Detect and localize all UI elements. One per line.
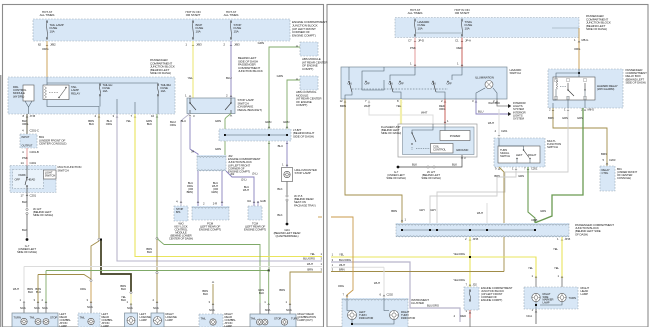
svg-text:(W/O ALARM): (W/O ALARM) [597,87,614,91]
svg-text:SIDE OF DASH): SIDE OF DASH) [626,80,646,84]
svg-text:CONSOLE): CONSOLE) [617,176,631,180]
svg-text:10A: 10A [103,89,108,93]
heavy BRN/BLK wire to license lamps [101,240,131,292]
key lock control module [180,201,182,203]
svg-text:ORG: ORG [22,122,29,126]
junction dot green bus x269 [268,270,270,272]
svg-text:NCA: NCA [153,306,159,310]
hazard relay [553,77,595,100]
svg-text:RA: RA [247,199,251,203]
svg-text:GRN): GRN) [211,190,218,194]
svg-text:BLK: BLK [452,163,457,167]
svg-text:OUTPUT: OUTPUT [22,144,33,148]
svg-text:BLU/ORG: BLU/ORG [303,257,315,261]
svg-text:PACKAGE TRAY): PACKAGE TRAY) [294,203,316,207]
svg-text:TAIL: TAIL [251,317,257,321]
wire ORG to hazard relay [578,28,580,69]
svg-text:BRN: BRN [307,268,313,272]
pins below top junction block [46,44,48,46]
svg-text:M8-G: M8-G [582,38,590,42]
svg-text:CONTROL: CONTROL [433,148,447,152]
svg-text:BLU: BLU [181,119,186,123]
svg-text:BLK: BLK [277,187,282,191]
svg-text:STOP LAMP: STOP LAMP [295,171,311,175]
ground G-7 under left side of dash [26,238,29,241]
svg-text:10A: 10A [161,89,166,93]
wire BRN from relay to relay-control box [553,108,607,166]
svg-text:ORG: ORG [439,107,446,111]
passenger compartment junction block (DRL/tail relay box) [8,77,175,114]
left license lamp [125,313,138,327]
wire BLU to TCM [226,171,254,206]
svg-text:GRN: GRN [277,74,283,78]
svg-text:SIDE OF DASH): SIDE OF DASH) [586,27,607,31]
wire to right rear combination lamp (w/stop) [212,284,214,305]
fuse TAIL LAMP FUSE 10A [46,20,48,22]
pins below relay box [552,109,554,111]
svg-text:STOP: STOP [50,316,57,320]
wire ORG from tail lamp fuse [46,41,48,77]
svg-text:LAMP: LAMP [166,318,173,322]
svg-text:QUARTERPANEL): QUARTERPANEL) [275,234,298,238]
svg-text:GRN: GRN [562,116,568,120]
svg-text:SIDE OF DASH): SIDE OF DASH) [150,71,171,75]
svg-text:SYSTEM: SYSTEM [513,117,525,121]
svg-text:(W/ DRL): (W/ DRL) [13,94,24,98]
svg-text:YEL: YEL [528,266,534,270]
svg-text:WHT: WHT [364,104,371,108]
svg-text:LAMP: LAMP [140,318,147,322]
svg-text:BLU: BLU [478,110,483,114]
svg-text:YEL: YEL [188,76,194,80]
long vertical BRN/BLK (x99) from junction block to rear lamps [98,114,100,238]
ground G04 behind left rear quarterpanel [286,223,289,226]
svg-text:GRN: GRN [215,119,221,123]
svg-text:ORG: ORG [42,47,49,51]
svg-text:ENGINE COMPT): ENGINE COMPT) [244,228,266,232]
svg-text:LAMP: LAMP [543,300,550,304]
svg-text:RED: RED [457,46,463,50]
svg-text:NCA: NCA [265,308,271,312]
wire WHT/BLK to interior lights system [497,99,508,106]
svg-text:WHT: WHT [421,111,428,115]
svg-text:M8-G: M8-G [588,108,595,112]
wire YEL from b/up fuse [192,41,194,98]
svg-text:BRN: BRN [548,116,554,120]
svg-text:2-R: 2-R [213,202,217,206]
right head lamp [524,287,578,309]
WHT bus [24,266,322,268]
svg-text:ILLUMINATION: ILLUMINATION [475,76,494,80]
svg-text:BLU/ORG: BLU/ORG [427,304,439,308]
wire PNK from B01 to multi-function switch [26,148,28,166]
svg-text:BLK: BLK [147,122,152,126]
svg-text:BLU: BLU [226,76,232,80]
svg-text:10: 10 [151,114,155,118]
fuse HAZARD FUSE 10A [414,19,416,21]
svg-text:C7: C7 [408,39,412,43]
svg-text:GRN: GRN [283,120,289,124]
GRN drop to left rear stop lamp [45,271,47,304]
svg-text:J/B3: J/B3 [196,43,202,47]
svg-text:BRN: BRN [391,209,397,213]
switch blades inside stop lamp switch [189,98,191,103]
svg-text:BRN: BRN [279,288,285,292]
svg-text:YEL: YEL [339,253,345,257]
wire BLK below high mounted stop lamp [286,182,288,195]
junction dots in LT-B/T [224,134,226,136]
svg-text:NCA: NCA [34,306,40,310]
svg-text:HEAD: HEAD [28,178,36,182]
WHT drop to left rear turn lamp [23,267,25,304]
svg-text:OF DASH): OF DASH) [575,232,588,236]
svg-text:GRY: GRY [430,208,436,212]
wire RED [461,38,463,68]
wire BLU/ORG from stop lamp switch to key lock module [189,115,191,117]
svg-text:J/B2: J/B2 [50,43,56,47]
wire BLU to interior lights system [476,99,508,114]
svg-text:WHT: WHT [307,262,313,266]
flasher unit [398,124,477,157]
hazard relay box (passenger compartment relay box) [548,69,623,108]
svg-text:YEL/ORG: YEL/ORG [453,252,465,256]
svg-text:YEL: YEL [126,119,132,123]
svg-text:10A: 10A [196,29,201,33]
small engine compartment junction block (bottom right) [464,287,479,310]
pins below [414,40,416,42]
bus WHT right panel [331,266,384,268]
svg-text:C201: C201 [30,161,37,165]
svg-text:TAIL: TAIL [80,316,86,320]
svg-text:NCA: NCA [20,306,26,310]
fuse B/UP FUSE 10A [192,20,194,22]
svg-text:SWITCH: SWITCH [547,145,558,149]
wire YEL to right head lamp (from bus corner) [331,257,536,278]
LT-B/T connector box (behind right side of dash) [219,129,291,141]
left panel frame [3,5,324,327]
wire YEL thick from hazard switch to flasher [400,99,402,124]
svg-text:BLK: BLK [28,290,33,294]
B01 box (under front of center console) [20,134,37,148]
fuse STOP FUSE 15A [230,20,232,22]
fuse TAIL/RH FUSE 10A [157,83,159,85]
wire GRN from stop lamp switch [230,115,232,117]
multi-function switch (light switch, left panel) [10,166,56,193]
pins below multi-function switch [498,168,500,170]
svg-text:TAIL: TAIL [30,316,36,320]
svg-text:BLU/ORG: BLU/ORG [339,258,351,262]
svg-text:GAB: GAB [260,199,266,203]
svg-text:SIDE OF DASH): SIDE OF DASH) [17,250,37,254]
svg-text:SIDE OF DASH): SIDE OF DASH) [293,134,314,138]
pins below DRL junction block [26,116,28,118]
svg-text:J02: J02 [473,283,478,287]
switch internals [348,67,350,80]
svg-text:17: 17 [20,194,24,198]
wire BRN from turn signal switch to bus [499,167,504,272]
svg-text:BLK: BLK [121,287,126,291]
svg-text:PNK: PNK [410,46,416,50]
svg-text:SIDE OF DASH): SIDE OF DASH) [386,176,406,180]
svg-text:(2-L): (2-L) [241,178,247,182]
right rear combination lamp (w/stop) [199,314,223,327]
svg-text:B/S: B/S [176,210,180,214]
wire YEL/ORG from junction block down to engine compt J/B [469,237,471,287]
tail lamp relay [43,85,69,100]
svg-text:C203: C203 [609,158,616,162]
svg-text:TURN: TURN [569,296,576,300]
green splice to tail bus (x157.5) [157,239,164,245]
wire BLU from stop fuse [230,41,232,98]
wire BLU from stop lamp switch down [190,117,198,155]
svg-text:10A: 10A [50,29,55,33]
svg-text:CTRL: CTRL [602,171,609,175]
svg-text:BLK: BLK [22,228,27,232]
svg-text:LAMP (OUT): LAMP (OUT) [298,318,313,322]
svg-text:SIDE OF DASH): SIDE OF DASH) [33,213,53,217]
wire BLK below right head lamp [535,302,537,309]
svg-text:GRN: GRN [577,116,583,120]
fuse TAIL/LH FUSE 10A [99,83,101,85]
svg-text:ENGINE COMPT): ENGINE COMPT) [292,34,316,38]
pins below hazard switch [344,101,346,103]
svg-text:15A: 15A [234,29,239,33]
svg-text:PEDAL BRACKET): PEDAL BRACKET) [238,108,262,112]
splice: connector + branch [98,238,100,240]
svg-text:SWITCH: SWITCH [500,154,510,158]
left rear combination lamp (w/stop) [78,313,100,327]
page edge strip [0,75,1,327]
svg-text:CLUSTER: CLUSTER [411,301,424,305]
svg-text:(3-L): (3-L) [252,172,258,176]
wire GRY from relay down-left [437,108,568,223]
wire BRN from hazard switch to junction block [345,99,402,223]
svg-text:WHT: WHT [243,188,249,192]
wire GRN from turn signal switch [528,167,535,223]
svg-text:PARK: PARK [19,173,26,177]
svg-text:ALL TIMES: ALL TIMES [408,11,423,15]
svg-text:INDICATOR: INDICATOR [401,316,415,320]
wire GRY2 from turn signal switch [430,167,516,223]
svg-text:CENTER CONSOLE): CENTER CONSOLE) [39,142,66,146]
engine compartment junction block (top, left panel) [33,19,290,41]
svg-text:C201-C: C201-C [30,129,39,133]
svg-text:YEL: YEL [553,247,559,251]
svg-text:62: 62 [38,43,42,47]
svg-text:NCA: NCA [209,308,215,312]
svg-text:BLK: BLK [147,250,152,254]
GRN bus [46,270,269,272]
TCM (left rear of engine compt) [253,201,255,203]
svg-text:WHT: WHT [339,263,345,267]
svg-text:ALL TIMES: ALL TIMES [224,13,239,17]
svg-text:GRN: GRN [540,209,546,213]
wire YEL 2 from junction block to head lamp turn [561,237,563,278]
svg-text:SWITCH: SWITCH [510,71,521,75]
svg-text:SWITCH: SWITCH [58,168,69,172]
svg-text:BRN: BRN [339,268,345,272]
inline connector I/C H/T [26,208,28,210]
svg-text:OFF: OFF [365,82,371,86]
wire RED below small junction block [469,310,471,318]
tan wire from left panel edge down to instrument cluster [331,217,353,298]
hazard switch assembly [341,67,507,99]
svg-text:NCA: NCA [286,308,292,312]
svg-text:NCA: NCA [526,314,532,318]
svg-text:C202: C202 [387,293,394,297]
svg-text:YEL: YEL [396,104,402,108]
svg-text:10A: 10A [465,26,470,30]
wire WHT from hazard switch to flasher [369,99,433,124]
svg-text:STOP: STOP [274,317,281,321]
stop lamp switch [187,98,235,114]
svg-text:OR START: OR START [455,11,470,15]
BRN segment to panel edge and right rear turn lamp [290,272,322,305]
svg-text:WHT: WHT [13,287,19,291]
olive tail branch to left lamps [38,275,91,280]
svg-text:YEL: YEL [310,252,316,256]
wire RED/ORG from hazard switch to flasher power [444,99,446,124]
svg-text:10A: 10A [418,26,423,30]
svg-text:NCA: NCA [87,305,93,309]
svg-text:TAIL: TAIL [201,317,207,321]
svg-text:GRY: GRY [419,208,425,212]
green tail bus to right rear combination lamp [164,245,260,304]
svg-text:BLK: BLK [89,122,94,126]
svg-text:WHT: WHT [374,281,380,285]
svg-text:ORG: ORG [574,47,581,51]
svg-text:C201: C201 [30,194,37,198]
wire BLU to high mounted stop lamp [286,141,288,167]
svg-text:WHT/BLK: WHT/BLK [488,101,500,105]
bus BLU/ORG right panel [331,262,460,322]
illumination lamp [485,81,493,89]
svg-text:BLK: BLK [412,163,417,167]
svg-text:INDICATOR: INDICATOR [359,316,373,320]
svg-text:INPUT: INPUT [22,135,30,139]
svg-text:C201: C201 [501,129,508,133]
engine compartment junction block (mid, left panel) [197,155,226,171]
svg-text:C1: C1 [455,39,459,43]
wire GRN from relay (big green) [535,108,583,223]
svg-text:JP-B: JP-B [565,237,571,241]
high mounted stop lamp [282,168,293,182]
wire BLK/ORG from DRL module to B01 box [26,114,28,134]
WHT drop to instrument cluster [383,267,385,298]
instrument cluster [342,298,408,327]
svg-text:GRN: GRN [215,147,221,151]
stub tan wire at panel edge (to right panel) [318,216,322,218]
svg-text:WHT: WHT [477,211,483,215]
svg-text:PNK: PNK [22,156,28,160]
svg-text:WHT: WHT [488,121,494,125]
svg-text:SWITCH: SWITCH [45,174,56,178]
svg-text:ORG: ORG [106,122,113,126]
svg-text:JUNCTION BLOCK: JUNCTION BLOCK [238,69,263,73]
flasher ground wire to G-7 [399,155,462,167]
svg-text:POWER: POWER [450,134,460,138]
svg-text:BLK: BLK [121,298,126,302]
svg-text:BLK: BLK [277,213,282,217]
svg-text:C201-B: C201-B [30,150,39,154]
svg-text:BRN): BRN) [187,190,194,194]
svg-text:JP-D: JP-D [418,39,424,43]
svg-text:CENTER OF DASH): CENTER OF DASH) [169,237,193,241]
svg-text:NCA: NCA [42,306,48,310]
svg-text:BLK: BLK [259,291,264,295]
svg-text:RED: RED [460,314,466,318]
flasher relay blades [411,132,412,133]
svg-text:BLU: BLU [278,144,283,148]
fuse T/SIG FUSE 10A [461,19,463,21]
svg-text:SIDE OF DASH): SIDE OF DASH) [381,131,401,135]
svg-text:OFF: OFF [447,82,453,86]
svg-text:BRN: BRN [601,152,607,156]
svg-text:GROUND: GROUND [456,148,468,152]
svg-text:ENGINE COMPT): ENGINE COMPT) [199,228,221,232]
svg-text:COMPT): COMPT) [296,103,307,107]
long vertical GRN/BLK (x157) [156,114,158,238]
svg-text:COMPT): COMPT) [302,67,313,71]
svg-text:LEFT: LEFT [516,153,523,157]
svg-text:J/B3: J/B3 [234,43,240,47]
svg-text:GRN: GRN [258,41,264,45]
DRL control module [23,85,34,101]
svg-text:ENGINE COMPT): ENGINE COMPT) [481,298,502,302]
svg-text:OFF: OFF [399,82,405,86]
wire GRN to ABS control module [287,80,300,129]
internal stubs [116,99,118,114]
svg-text:J7-B: J7-B [30,114,36,118]
svg-text:GRN: GRN [518,174,524,178]
passenger compartment junction block (top, right panel) [395,18,579,38]
svg-text:JP-B: JP-B [473,237,479,241]
svg-text:YEL: YEL [554,266,560,270]
left rear combination lamp (w/o ...) [12,313,58,327]
right license lamp [151,313,164,327]
long vertical BLU/ORG (x117) then bus right [117,114,322,261]
svg-text:14: 14 [20,161,24,165]
svg-text:BLK: BLK [22,200,27,204]
svg-text:RELAY: RELAY [71,91,80,95]
BRN/BLK continues to right license lamp [156,240,158,303]
svg-text:LAMP: LAMP [581,292,589,296]
svg-text:C201: C201 [531,167,538,171]
right rear combination lamp (w/o ...) [250,314,296,327]
svg-text:ALL TIMES: ALL TIMES [40,13,55,17]
svg-text:RIGHT: RIGHT [528,153,537,157]
svg-text:YEL/ORG: YEL/ORG [453,278,465,282]
svg-text:JP-A: JP-A [465,39,471,43]
svg-text:ORG: ORG [338,284,344,288]
svg-text:J02: J02 [230,172,235,176]
svg-text:34: 34 [191,150,195,154]
wire PNK [414,38,416,68]
right panel frame [327,5,648,327]
svg-text:BRN: BRN [340,104,346,108]
svg-text:SIDE OF DASH): SIDE OF DASH) [421,176,441,180]
ABS control module box [300,76,318,90]
passenger compartment junction block (mid, right panel) [396,223,569,237]
PCM (left rear of engine compt) [197,201,199,203]
svg-text:NCA: NCA [127,306,133,310]
svg-text:OFF: OFF [15,178,21,182]
svg-text:BLK: BLK [36,290,41,294]
bus BRN right panel (to turn signal switch) [331,271,504,273]
svg-text:OR START: OR START [186,13,201,17]
svg-text:ORG: ORG [80,287,86,291]
pins below junction block [469,239,471,241]
